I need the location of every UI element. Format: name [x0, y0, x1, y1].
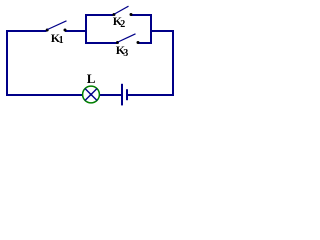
- battery negative plate (short): [126, 89, 128, 100]
- wire: parallel group right vertical: [150, 14, 152, 44]
- wire: K1 to parallel group: [65, 30, 87, 32]
- svg-text:L: L: [87, 71, 96, 86]
- wire: K3 branch left segment: [85, 42, 117, 44]
- switch K2 pivot contact: [113, 13, 116, 16]
- lamp L bulb circle: [83, 86, 100, 103]
- wire: parallel group left vertical: [85, 14, 87, 44]
- wire: battery to right side: [128, 94, 174, 96]
- svg-text:2: 2: [120, 19, 125, 30]
- switch K3 pivot contact: [116, 41, 119, 44]
- wire: K2 branch right segment: [131, 14, 152, 16]
- lamp center dot: [90, 93, 93, 96]
- switch K1 blade: [48, 21, 67, 30]
- switch K1 pivot contact: [46, 29, 49, 32]
- switch K2 right contact: [130, 13, 133, 16]
- wire: group to right side: [150, 30, 174, 32]
- lamp X cross: [85, 89, 97, 101]
- wire: lamp to battery: [99, 94, 121, 96]
- svg-text:1: 1: [59, 35, 64, 46]
- switch K3 blade: [118, 34, 136, 42]
- wire: bottom horizontal to lamp: [6, 94, 83, 96]
- switch K3 right contact: [137, 41, 140, 44]
- wire: left vertical side: [6, 30, 8, 96]
- switch K1 right contact: [64, 29, 67, 32]
- svg-text:3: 3: [123, 48, 128, 59]
- battery positive plate (long): [121, 84, 123, 106]
- wire: K2 branch left segment: [85, 14, 113, 16]
- wire: top-left horizontal to switch K1: [6, 30, 47, 32]
- wire: K3 branch right segment: [138, 42, 152, 44]
- switch K2 blade: [115, 6, 129, 14]
- wire: right vertical side: [172, 30, 174, 96]
